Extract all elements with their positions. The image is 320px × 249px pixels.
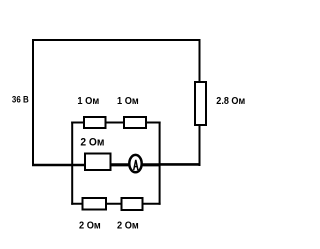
resistor R6 2.8 Ом right vertical [195,82,206,125]
wire top branch [71,122,160,124]
resistor R1 1 Ом top-left [84,117,106,128]
svg-text:36 В: 36 В [12,94,29,105]
wire left (from source) [32,39,34,166]
ammeter A1 letter [134,160,138,170]
resistor R5 2 Ом bottom-right [122,198,143,210]
wire right bus [159,122,161,205]
svg-text:2 Ом: 2 Ом [117,220,139,231]
wire left bus [71,122,73,205]
wire middle branch right segment [159,163,200,166]
wire bottom branch [71,203,160,205]
resistor R3 2 Ом middle [85,154,111,171]
svg-text:1 Ом: 1 Ом [77,96,99,107]
svg-text:2.8 Ом: 2.8 Ом [216,96,245,107]
svg-text:1 Ом: 1 Ом [117,96,139,107]
resistor R2 1 Ом top-right [124,117,146,128]
ammeter A1 body [129,155,141,172]
resistor R4 2 Ом bottom-left [83,198,107,210]
wire right [199,39,201,166]
wire middle branch bold segment through ammeter [108,163,161,166]
wire middle branch left segment [32,164,90,167]
wire top [32,39,201,41]
svg-text:2 Ом: 2 Ом [79,220,101,231]
svg-text:2 Ом: 2 Ом [80,137,104,149]
